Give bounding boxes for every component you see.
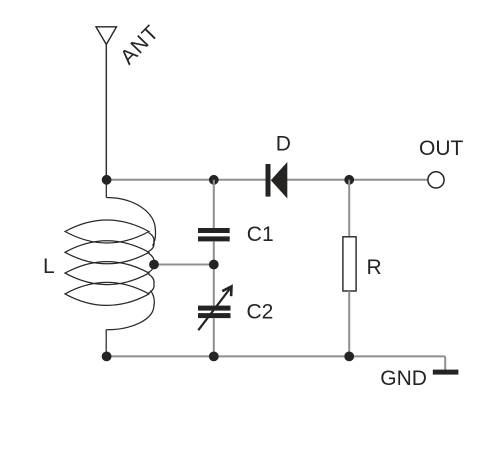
- wire: C1 to tap node: [213, 241, 215, 305]
- node coil tap: [149, 260, 159, 270]
- svg-text:ANT: ANT: [116, 21, 164, 69]
- wire: resistor bottom lead: [348, 291, 350, 356]
- resistor R: [343, 237, 356, 291]
- svg-text:R: R: [367, 256, 382, 279]
- node junction bottom-left: [102, 352, 112, 362]
- node junction bottom-right: [344, 352, 354, 362]
- wire: drop to ground: [444, 356, 446, 370]
- coil L: [65, 180, 156, 357]
- svg-text:C1: C1: [247, 223, 274, 246]
- wire: coil tap to middle node: [154, 264, 214, 266]
- wire: resistor top lead: [348, 180, 350, 237]
- svg-text:OUT: OUT: [419, 137, 464, 160]
- C2 adjustment arrow: [198, 286, 231, 330]
- node junction top-right: [344, 175, 354, 185]
- node junction top-left: [102, 175, 112, 185]
- ground symbol: [433, 370, 459, 375]
- wire: top bus left (node A to diode): [107, 179, 266, 181]
- node junction top-middle: [209, 175, 219, 185]
- svg-text:L: L: [43, 255, 55, 278]
- OUT terminal: [428, 172, 444, 188]
- wire: middle vertical (node A down to C1): [213, 180, 215, 228]
- antenna symbol: [96, 27, 117, 45]
- svg-text:GND: GND: [380, 367, 427, 390]
- wire: bottom bus: [107, 355, 446, 357]
- diode D: [266, 162, 288, 199]
- variable capacitor C2: [198, 306, 231, 319]
- wire: C2 to bottom bus: [213, 318, 215, 356]
- node C1-C2 junction: [209, 260, 219, 270]
- capacitor C1: [198, 228, 230, 241]
- wire: diode to OUT: [287, 179, 428, 181]
- svg-text:C2: C2: [247, 301, 274, 324]
- svg-text:D: D: [276, 133, 291, 156]
- antenna lead wire: [105, 45, 107, 180]
- node junction bottom-middle: [209, 352, 219, 362]
